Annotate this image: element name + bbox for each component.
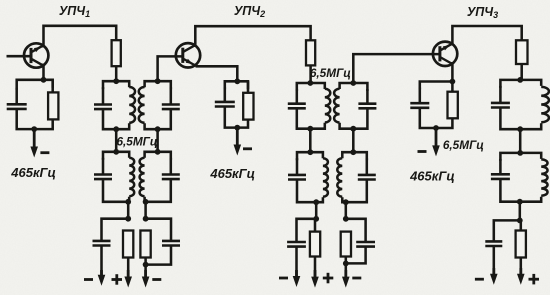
svg-text:465кГц: 465кГц xyxy=(209,166,255,181)
svg-text:6,5МГц: 6,5МГц xyxy=(116,135,157,149)
svg-text:465кГц: 465кГц xyxy=(10,165,56,180)
svg-text:6,5МГц: 6,5МГц xyxy=(443,138,484,152)
svg-text:465кГц: 465кГц xyxy=(409,168,455,183)
svg-text:6,5МГц: 6,5МГц xyxy=(310,66,351,80)
